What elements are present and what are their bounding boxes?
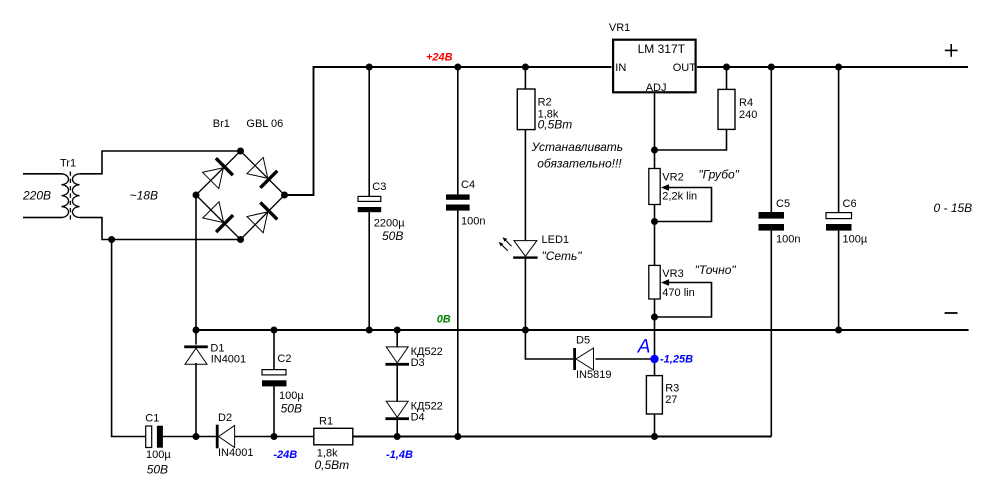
node D1 bottom rail	[193, 433, 200, 440]
wire C2 bottom	[273, 386, 275, 436]
wire secondary bottom to bridge	[80, 218, 241, 240]
diode D3	[385, 347, 409, 366]
wire bottom rail R1 to right	[353, 436, 772, 438]
bridge Br1 edge top-left	[196, 151, 241, 195]
potentiometer VR2 body	[649, 169, 671, 205]
svg-text:VR3: VR3	[662, 268, 683, 280]
resistor R3	[646, 376, 662, 414]
wire D1 to bottom rail	[195, 363, 197, 437]
svg-text:A: A	[637, 336, 651, 357]
svg-text:100n: 100n	[776, 234, 800, 246]
svg-text:C4: C4	[461, 179, 475, 191]
bridge diode top-right	[247, 157, 279, 189]
node bridge top	[237, 148, 244, 155]
svg-text:220В: 220В	[22, 188, 51, 202]
node C2 bottom rail	[271, 433, 278, 440]
wire R2 top	[524, 67, 526, 89]
capacitor C6	[826, 213, 852, 231]
bridge diode top-left	[202, 157, 234, 189]
svg-text:IN4001: IN4001	[211, 354, 246, 366]
capacitor C3	[358, 196, 382, 212]
diode D2	[216, 425, 235, 449]
transformer Tr1 secondary winding	[72, 174, 102, 218]
svg-text:C1: C1	[145, 413, 159, 425]
svg-text:240: 240	[739, 109, 757, 121]
wire 0V to D5	[525, 330, 573, 359]
wire 0V rail	[196, 329, 969, 331]
wire bottom rail D2 to R1	[235, 436, 314, 438]
svg-text:КД522: КД522	[411, 400, 443, 412]
node C2 0V rail	[271, 327, 278, 334]
svg-text:D5: D5	[576, 334, 590, 346]
resistor R4	[718, 89, 735, 129]
node bridge right	[281, 192, 288, 199]
wire C6 bottom	[838, 231, 840, 330]
svg-text:2,2k lin: 2,2k lin	[662, 190, 697, 202]
wire top rail right	[697, 66, 968, 68]
svg-text:IN4001: IN4001	[218, 447, 253, 459]
svg-text:R4: R4	[739, 97, 753, 109]
node C3 top rail	[366, 64, 373, 71]
node transformer bottom junction	[108, 236, 115, 243]
diode D5	[573, 348, 593, 370]
svg-text:"Точно": "Точно"	[695, 263, 737, 277]
bridge Br1 edge bottom-right	[241, 195, 285, 240]
LED LED1	[513, 241, 537, 259]
svg-text:КД522: КД522	[411, 346, 443, 358]
terminal plus	[945, 44, 958, 57]
terminal minus	[945, 312, 958, 314]
wire VR3 to node A	[654, 299, 656, 376]
svg-text:470 lin: 470 lin	[662, 287, 694, 299]
resistor R2	[517, 89, 535, 130]
node C5 out rail	[768, 64, 775, 71]
svg-text:IN: IN	[615, 62, 626, 74]
svg-text:D2: D2	[218, 412, 232, 424]
node C6 0V rail	[835, 327, 842, 334]
capacitor C2	[262, 370, 287, 387]
svg-text:100µ: 100µ	[146, 449, 171, 461]
capacitor C1	[146, 426, 163, 448]
LED1 arrow 2	[499, 242, 508, 251]
svg-text:Tr1: Tr1	[60, 158, 76, 170]
node D3 0V rail	[394, 327, 401, 334]
node D4 bottom rail	[394, 433, 401, 440]
wire D5 to node A	[596, 358, 655, 360]
wire C4 bottom long	[457, 211, 459, 437]
LED1 arrow 1	[503, 237, 512, 246]
svg-text:0,5Вт: 0,5Вт	[538, 118, 573, 132]
transformer Tr1 core	[69, 172, 71, 221]
capacitor C4	[446, 194, 470, 210]
svg-text:R2: R2	[538, 97, 552, 109]
svg-text:C3: C3	[372, 181, 386, 193]
node C4 bottom rail	[454, 433, 461, 440]
wire D3 to D4	[396, 366, 398, 402]
svg-text:50В: 50В	[147, 462, 168, 476]
node bridge bottom	[237, 236, 244, 243]
svg-text:OUT: OUT	[673, 62, 697, 74]
node VR2 bottom junction	[651, 218, 658, 225]
svg-text:D3: D3	[411, 357, 425, 369]
svg-text:"Грубо": "Грубо"	[698, 167, 739, 181]
svg-text:~18В: ~18В	[130, 188, 158, 202]
wire primary bottom	[23, 217, 62, 219]
wire C5 top	[770, 67, 772, 212]
diode D1	[184, 345, 208, 364]
svg-text:"Сеть": "Сеть"	[542, 249, 583, 263]
wire C3 to 0V rail	[368, 212, 370, 330]
wire R2 to LED	[524, 130, 526, 241]
wire bottom rail C1 to D2	[163, 436, 216, 438]
svg-text:-1,4В: -1,4В	[386, 449, 413, 461]
wire VR2 to VR3	[654, 205, 656, 266]
svg-text:0 - 15В: 0 - 15В	[934, 201, 973, 215]
wire bridge right to top rail	[285, 67, 612, 195]
node R3 bottom rail	[651, 433, 658, 440]
svg-text:ADJ: ADJ	[646, 82, 667, 94]
svg-text:R3: R3	[665, 383, 679, 395]
capacitor C5	[759, 212, 785, 231]
svg-text:LM 317T: LM 317T	[638, 42, 686, 56]
svg-text:Br1: Br1	[213, 118, 230, 130]
wire VR1 ADJ	[654, 94, 656, 169]
svg-text:-1,25В: -1,25В	[660, 353, 693, 365]
bridge Br1 edge bottom-left	[196, 195, 241, 240]
node VR3 bottom junction	[651, 314, 658, 321]
wire C6 top	[838, 67, 840, 213]
svg-text:Устанавливать: Устанавливать	[531, 140, 624, 154]
svg-text:50В: 50В	[382, 229, 403, 243]
node bridge left	[193, 192, 200, 199]
node R2 top rail	[522, 64, 529, 71]
wire C4 top	[457, 67, 459, 194]
svg-text:IN5819: IN5819	[576, 369, 611, 381]
node C3 0V rail	[366, 327, 373, 334]
node R4 out rail	[723, 64, 730, 71]
wire R3 to bottom rail	[654, 414, 656, 437]
svg-text:C5: C5	[776, 198, 790, 210]
wire C2 top	[273, 330, 275, 370]
node C4 top rail	[454, 64, 461, 71]
bridge diode bottom-left	[202, 201, 234, 233]
node C6 out rail	[835, 64, 842, 71]
wire D4 to bottom rail	[396, 420, 398, 437]
node D1 0V rail	[193, 327, 200, 334]
op-amp U1 regulator VR1 box	[613, 40, 696, 93]
svg-text:D1: D1	[210, 342, 224, 354]
wire bridge left to D1	[195, 195, 197, 345]
svg-text:0,5Вт: 0,5Вт	[315, 458, 350, 472]
wire D3 top	[396, 330, 398, 347]
svg-text:C6: C6	[843, 198, 857, 210]
svg-text:100n: 100n	[461, 216, 485, 228]
node LED 0V rail	[522, 327, 529, 334]
wire C3 branch	[368, 67, 370, 196]
transformer Tr1 primary winding	[23, 174, 69, 218]
wire VR2 wiper loop	[655, 188, 712, 222]
svg-text:обязательно!!!: обязательно!!!	[537, 157, 622, 171]
svg-text:LED1: LED1	[542, 234, 570, 246]
svg-text:C2: C2	[277, 353, 291, 365]
resistor R1	[314, 428, 353, 445]
wire LED to 0V rail	[524, 258, 526, 330]
svg-text:D4: D4	[411, 412, 425, 424]
node ADJ R4 junction	[651, 147, 658, 154]
svg-text:R1: R1	[319, 416, 333, 428]
svg-text:27: 27	[665, 394, 677, 406]
wire secondary top to bridge	[80, 151, 241, 174]
bridge Br1 edge top-right	[241, 151, 285, 195]
wire VR3 wiper loop	[655, 283, 712, 318]
potentiometer VR3 body	[649, 265, 671, 299]
bridge diode bottom-right	[247, 201, 279, 233]
wire R4 top	[726, 67, 728, 89]
svg-text:0В: 0В	[437, 314, 451, 326]
svg-text:100µ: 100µ	[843, 234, 868, 246]
svg-text:-24В: -24В	[273, 449, 297, 461]
svg-text:100µ: 100µ	[279, 390, 304, 402]
wire drop to bottom rail	[112, 240, 146, 437]
svg-text:VR1: VR1	[609, 22, 630, 34]
svg-text:2200µ: 2200µ	[374, 218, 405, 230]
wire primary top	[23, 173, 62, 175]
wire R4 bottom to ADJ	[655, 129, 727, 150]
diode D4	[385, 401, 409, 420]
svg-text:VR2: VR2	[662, 171, 683, 183]
svg-text:50В: 50В	[281, 402, 302, 416]
svg-text:GBL 06: GBL 06	[246, 118, 283, 130]
svg-text:+24В: +24В	[426, 52, 453, 64]
wire C5 bottom riser	[770, 231, 772, 437]
node A blue	[650, 355, 658, 363]
